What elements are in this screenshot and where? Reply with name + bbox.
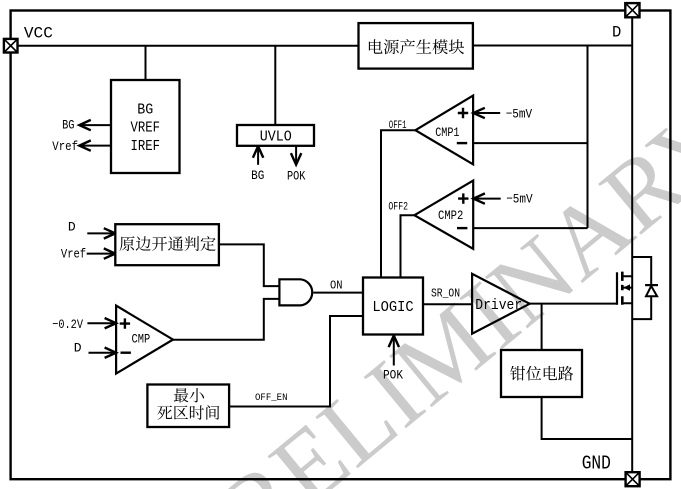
block primary-side turn-on detect 原边开通判定 [115, 224, 219, 265]
label 电源产生模块 [369, 39, 464, 54]
arrow POK into LOGIC [389, 336, 399, 366]
label -0.2V [52, 317, 83, 332]
wire clamp bottom to D line [542, 397, 633, 439]
label -5mV (CMP1) [506, 106, 533, 121]
CMP1 minus sign [457, 142, 467, 144]
svg-text:ON: ON [330, 279, 343, 293]
watermark PRELIMINARY [154, 81, 681, 489]
label OFF2 [388, 202, 408, 214]
label OFF1 [389, 120, 407, 132]
svg-text:D: D [74, 340, 82, 355]
label D (CMP input) [74, 340, 82, 355]
arrow POK out of UVLO [291, 146, 301, 165]
label 原边开通判定 [120, 236, 216, 251]
label -5mV (CMP2) [506, 192, 533, 207]
block UVLO [237, 125, 314, 146]
label BG (under UVLO) [251, 168, 264, 183]
label IREF (block line 3) [131, 138, 161, 155]
svg-text:−5mV: −5mV [506, 192, 533, 207]
arrow -0.2V input to CMP [87, 318, 116, 328]
svg-text:BG: BG [251, 168, 264, 183]
svg-text:IREF: IREF [131, 138, 161, 155]
CMP plus sign [120, 318, 130, 328]
svg-text:GND: GND [582, 452, 611, 474]
label Vref (primary-on input) [61, 246, 86, 261]
wire VCC rail right (power module to D line) [473, 45, 632, 47]
svg-text:CMP2: CMP2 [438, 208, 463, 223]
svg-text:BG: BG [137, 101, 153, 118]
label CMP1 [435, 125, 459, 140]
diode body diode [645, 285, 658, 296]
op-amp CMP [116, 306, 173, 374]
block power supply module 电源产生模块 [359, 23, 473, 69]
label SR_ON [431, 286, 460, 300]
svg-text:VCC: VCC [24, 24, 53, 42]
label VREF (block line 2) [131, 120, 161, 137]
label POK (into LOGIC) [383, 368, 403, 383]
label Driver [475, 297, 522, 314]
svg-text:OFF2: OFF2 [388, 202, 408, 214]
CMP minus sign [121, 352, 131, 354]
label CMP [132, 332, 151, 347]
label Vref (left) [52, 139, 78, 154]
svg-text:POK: POK [383, 368, 403, 383]
svg-text:POK: POK [287, 168, 306, 183]
block BG VREF IREF [111, 80, 180, 173]
wire OFF1 from CMP1 to LOGIC [381, 130, 415, 277]
label BG (block line 1) [137, 101, 153, 118]
svg-text:BG: BG [62, 117, 74, 132]
wire drop to BG/VREF/IREF block [145, 46, 147, 80]
op-amp CMP2 [414, 181, 473, 249]
wire primary-on detect to AND gate [219, 244, 280, 286]
AND gate [279, 279, 312, 305]
svg-text:Driver: Driver [475, 297, 522, 314]
label VCC [24, 24, 53, 42]
wire Driver output to MOSFET gate [530, 303, 617, 305]
arrow -5mV into CMP1 [473, 108, 500, 118]
svg-text:D: D [68, 219, 76, 234]
pin GND terminal [626, 472, 640, 486]
pin D terminal [625, 3, 639, 17]
arrow BG output [79, 120, 111, 130]
svg-text:CMP: CMP [132, 332, 151, 347]
label CMP2 [438, 208, 463, 223]
label ON [330, 279, 343, 293]
label UVLO [260, 128, 292, 145]
svg-text:−0.2V: −0.2V [52, 317, 83, 332]
svg-text:VREF: VREF [131, 120, 161, 137]
arrow Vref input to primary-on detect [87, 248, 116, 258]
arrow D input to primary-on detect [87, 228, 115, 238]
svg-text:D: D [612, 24, 621, 42]
wire D sense vertical to comparators [587, 46, 589, 229]
CMP2 plus sign [458, 193, 468, 203]
svg-text:SR_ON: SR_ON [431, 286, 460, 300]
block clamp circuit 钳位电路 [501, 350, 582, 397]
wire drop to UVLO block [274, 46, 276, 125]
wire AND output ON to LOGIC [313, 292, 363, 294]
CMP1 plus sign [458, 108, 468, 118]
arrow Vref output [79, 140, 111, 150]
label D (pin) [612, 24, 621, 42]
pin VCC terminal [4, 39, 18, 53]
svg-text:OFF1: OFF1 [389, 120, 407, 132]
label D (primary-on input) [68, 219, 76, 234]
label LOGIC [372, 299, 413, 316]
wire SR_ON LOGIC to Driver [423, 303, 472, 305]
svg-text:LOGIC: LOGIC [372, 299, 413, 316]
transistor SR MOSFET Q1 [617, 272, 632, 305]
block LOGIC [363, 278, 423, 335]
block minimum dead time 最小死区时间 [147, 385, 229, 428]
op-amp CMP1 [415, 96, 473, 165]
label OFF_EN [255, 392, 288, 404]
label 钳位电路 [510, 366, 573, 381]
arrow D input to CMP [89, 348, 117, 358]
wire VCC rail left [11, 45, 359, 47]
arrow -5mV into CMP2 [473, 193, 500, 203]
svg-text:OFF_EN: OFF_EN [255, 392, 288, 404]
wire body diode branch [632, 257, 651, 319]
buffer Driver [472, 274, 529, 334]
wire OFF2 from CMP2 to LOGIC [401, 215, 415, 277]
arrow BG into UVLO [253, 146, 263, 165]
label GND (pin) [582, 452, 611, 474]
wire drop to clamp block [541, 304, 543, 350]
svg-text:UVLO: UVLO [260, 128, 292, 145]
svg-text:Vref: Vref [52, 139, 78, 154]
wire OFF_EN dead-time to LOGIC [229, 316, 363, 407]
wire CMP1 inverting input [473, 142, 587, 144]
label BG (left) [62, 117, 74, 132]
wire CMP2 inverting input [473, 227, 587, 229]
svg-text:Vref: Vref [61, 246, 86, 261]
svg-text:CMP1: CMP1 [435, 125, 459, 140]
wire main D line vertical [631, 10, 633, 480]
label 最小 (line 1) [174, 388, 204, 402]
label 死区时间 (line 2) [157, 405, 219, 420]
CMP2 minus sign [457, 227, 467, 229]
label POK (under UVLO) [287, 168, 306, 183]
wire CMP output to AND gate [173, 299, 279, 340]
svg-text:−5mV: −5mV [506, 106, 533, 121]
